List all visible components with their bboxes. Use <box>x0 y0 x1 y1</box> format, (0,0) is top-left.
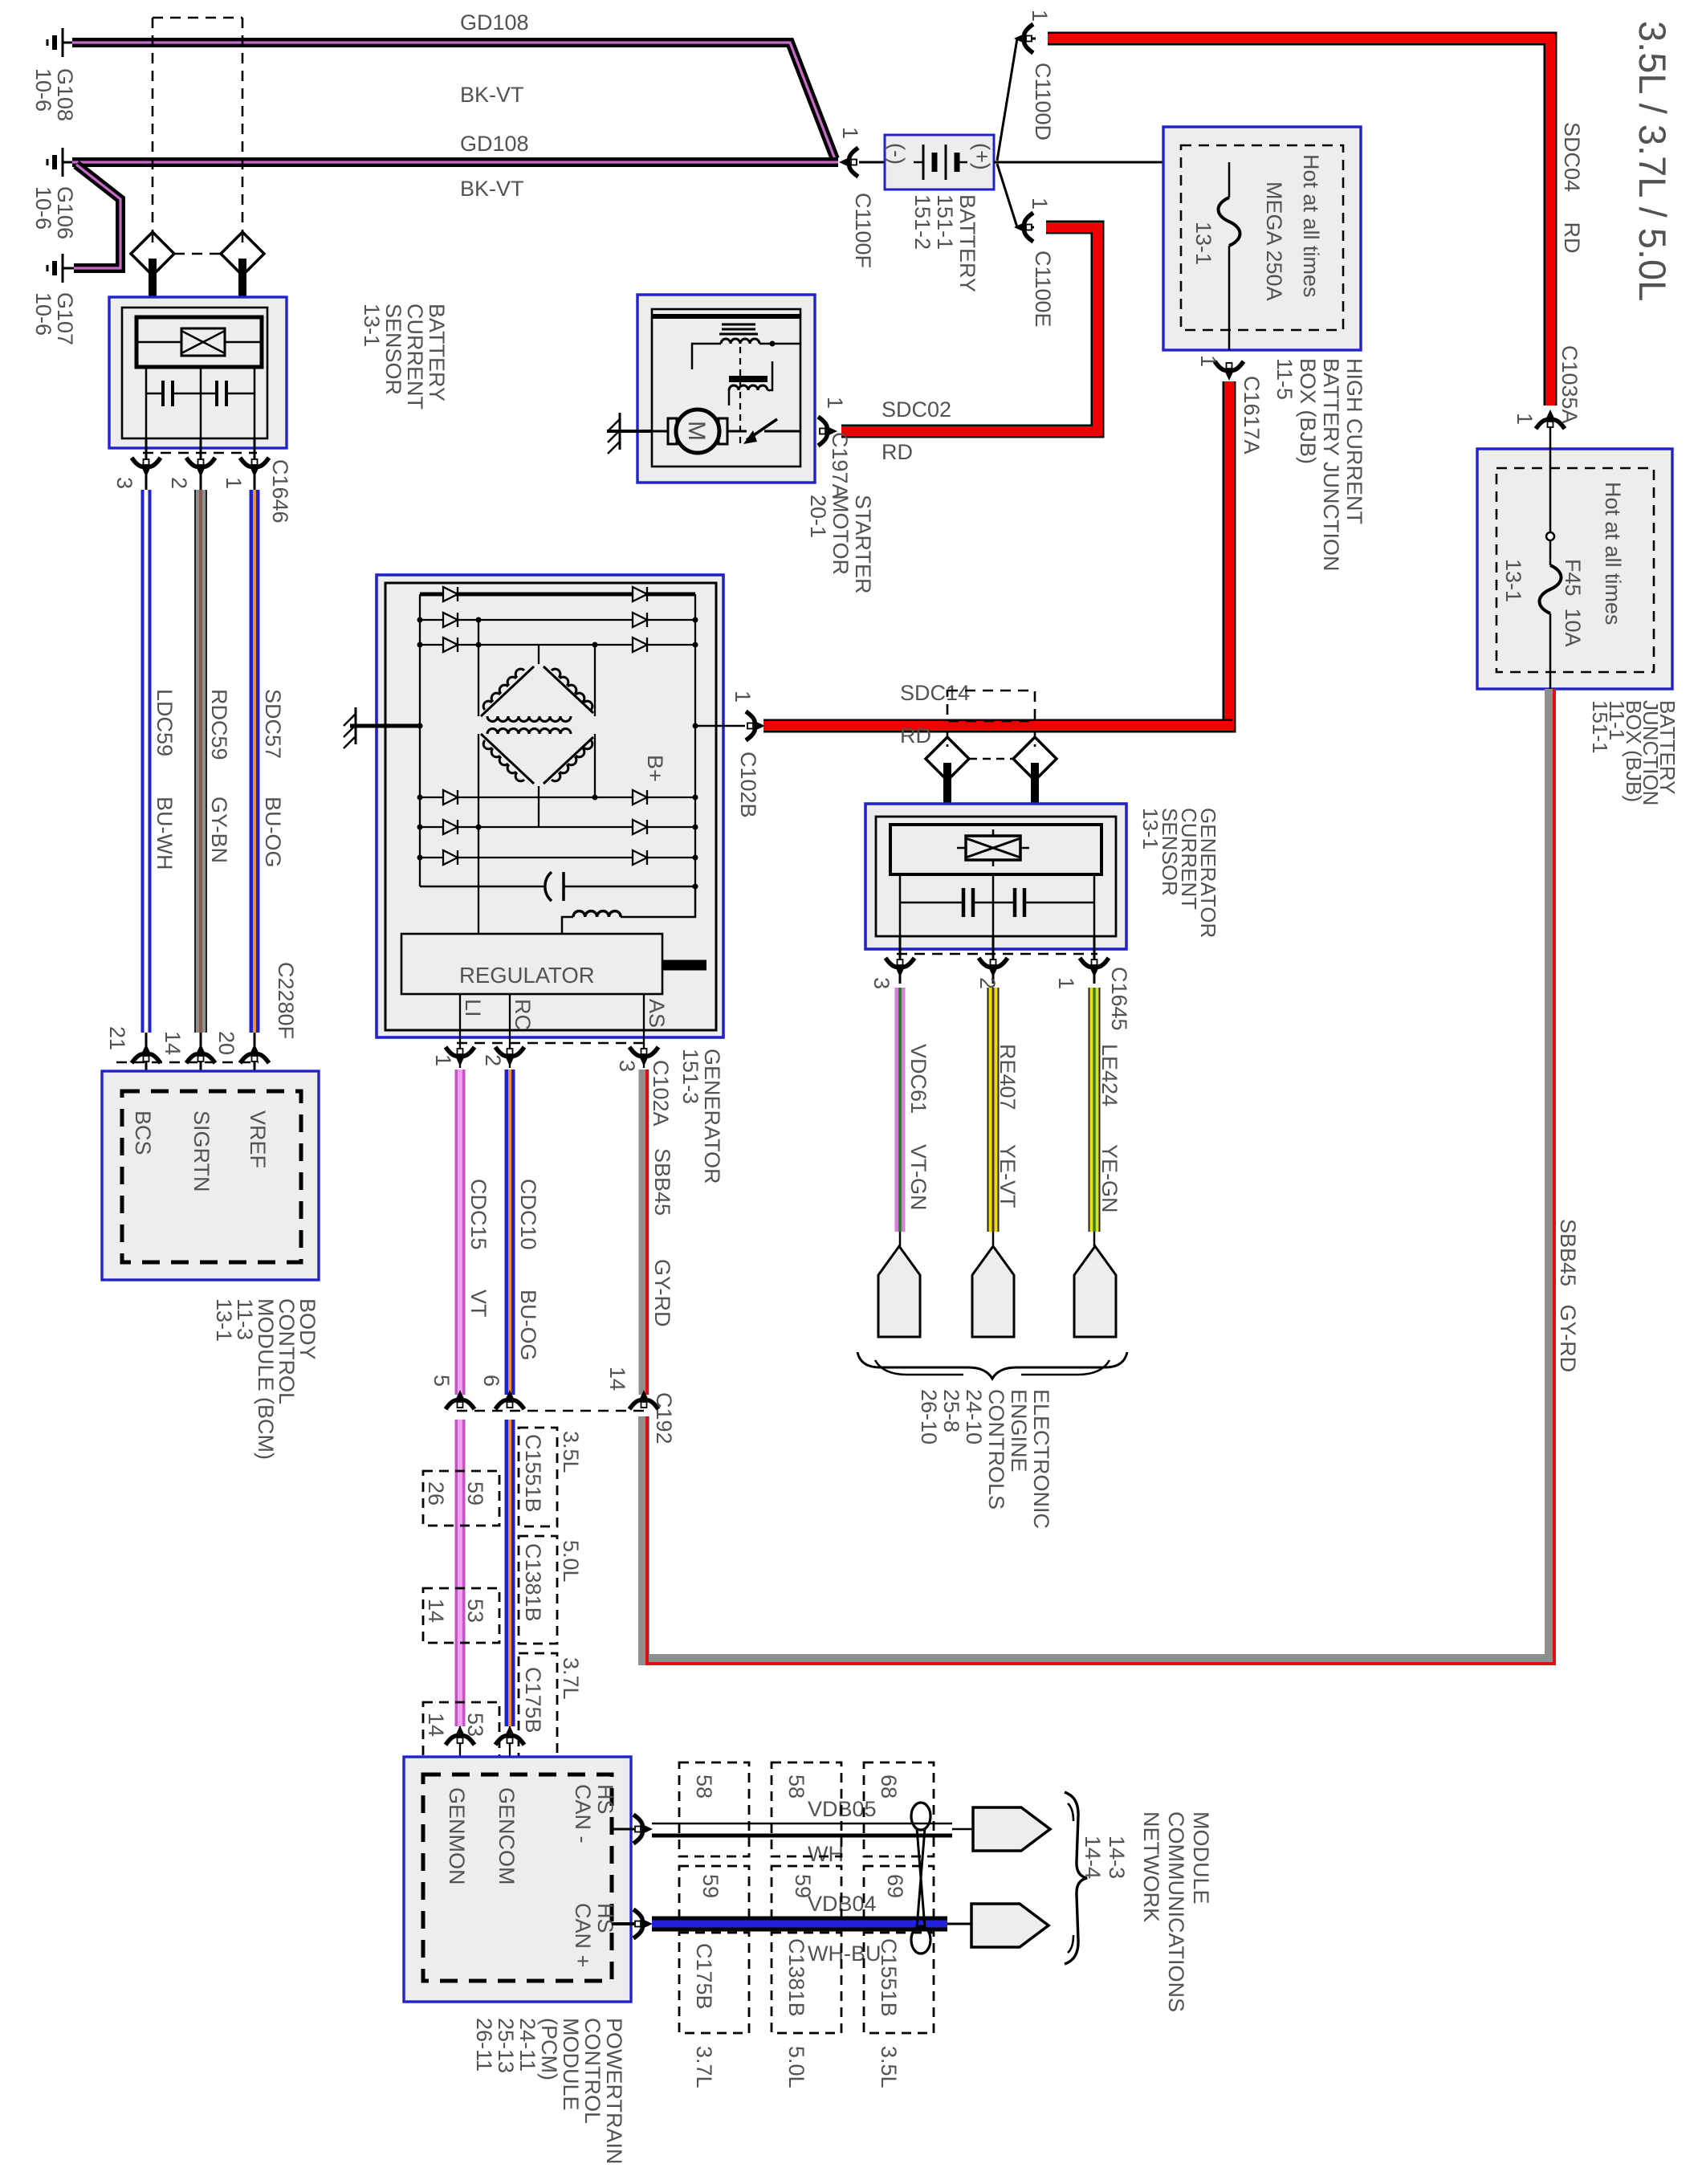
battery plates <box>914 161 923 164</box>
HS CAN + pin lead <box>612 1922 634 1925</box>
fuse MEGA 250A <box>1228 162 1231 198</box>
connector C197A arrow <box>818 417 837 446</box>
svg-text:58: 58 <box>692 1774 716 1799</box>
starter switch <box>727 430 747 433</box>
svg-text:YE-VT: YE-VT <box>996 1144 1020 1208</box>
HS CAN - pin lead <box>612 1828 634 1831</box>
svg-text:C1551B: C1551B <box>877 1938 901 2017</box>
svg-text:B+: B+ <box>643 755 667 782</box>
battery positive feed line to BJB <box>994 161 1229 164</box>
svg-text:20: 20 <box>214 1031 238 1055</box>
svg-text:SDC02: SDC02 <box>882 397 951 422</box>
svg-text:1: 1 <box>823 397 847 409</box>
connector C2280F dashed line <box>116 1061 259 1064</box>
generator box <box>377 575 723 1037</box>
splice diamond S4 <box>1013 737 1057 780</box>
svg-text:(+): (+) <box>970 143 994 170</box>
high current battery junction box (BJB) <box>1163 127 1361 350</box>
splice diamond S2 <box>221 232 264 275</box>
dashed link between S3 and S4 <box>969 758 1013 760</box>
wire RE407 YE-VT <box>987 988 1000 1232</box>
generator internal rails <box>420 594 695 934</box>
connector C1646 pin 2 arrow <box>186 458 215 477</box>
svg-text:C102A: C102A <box>649 1060 673 1127</box>
svg-text:RC: RC <box>511 999 535 1030</box>
connector C1381B pin box (14/53) <box>423 1588 499 1643</box>
connector C2280F pin 20 arrow <box>240 1044 269 1063</box>
wire SDC57 BU-OG <box>250 490 260 1033</box>
generator current sensor element <box>890 825 1101 874</box>
svg-text:1: 1 <box>1028 198 1052 210</box>
PCM pin arrow (GENMON) <box>446 1726 474 1745</box>
wire SDC14 RD (generator B+ to BJB) <box>763 719 1232 733</box>
PCM pin arrow (HS CAN -) <box>633 1815 653 1844</box>
connector C1035A arrow <box>1536 409 1565 429</box>
svg-text:14-314-4: 14-314-4 <box>1081 1836 1129 1879</box>
name box C175B (CAN) <box>679 1933 749 2033</box>
connector C102A pin 1 arrow <box>446 1047 474 1066</box>
svg-text:GY-RD: GY-RD <box>650 1259 674 1327</box>
svg-text:SDC14: SDC14 <box>900 681 970 705</box>
name box C1551B (CAN) <box>864 1933 934 2033</box>
svg-text:SDC04 RD: SDC04 RD <box>1560 122 1584 254</box>
svg-text:YE-GN: YE-GN <box>1097 1144 1122 1213</box>
connector C1617A arrow <box>1215 361 1244 381</box>
svg-text:CDC15: CDC15 <box>466 1179 491 1250</box>
splice diamond S3 <box>926 737 969 780</box>
capacitor C-c <box>900 902 963 904</box>
fuse F45 lead <box>1549 428 1552 565</box>
connector C175B pin box (14/53) <box>423 1702 499 1757</box>
connector C1646 pin 3 arrow <box>132 458 161 477</box>
off-page connector (VDC61) <box>899 1232 902 1246</box>
junction dots on rails <box>417 617 698 890</box>
svg-text:LE424: LE424 <box>1097 1044 1122 1106</box>
svg-text:BU-OG: BU-OG <box>516 1290 540 1361</box>
wire CDC15 VT (upper) <box>455 1070 466 1395</box>
fuse F45 <box>1540 565 1562 613</box>
battery <box>885 135 994 189</box>
wire VDC61 VT-GN <box>895 988 906 1232</box>
svg-text:5.0L: 5.0L <box>559 1540 583 1583</box>
dashed shield lines over ground wires <box>153 18 242 254</box>
pin box 59 (C175B) <box>679 1866 749 1919</box>
battery current sensor element <box>136 317 262 367</box>
svg-text:58: 58 <box>784 1774 808 1799</box>
svg-text:C1381B: C1381B <box>784 1938 808 2017</box>
svg-text:VDC61: VDC61 <box>906 1044 930 1114</box>
starter motor M <box>676 409 719 453</box>
svg-text:13-1: 13-1 <box>1191 222 1215 265</box>
wire leads into BCM <box>145 1033 148 1091</box>
off-page connector (VDB04) <box>971 1904 1048 1947</box>
svg-text:69: 69 <box>883 1874 907 1898</box>
capacitor C-a <box>146 393 163 395</box>
svg-text:C175B: C175B <box>692 1943 716 2010</box>
svg-text:3: 3 <box>112 477 136 489</box>
svg-text:1: 1 <box>1196 355 1220 367</box>
capacitor C-b <box>173 393 217 395</box>
capacitor C-d <box>973 902 1015 904</box>
svg-text:WH: WH <box>808 1842 844 1866</box>
svg-text:C1381B: C1381B <box>521 1543 545 1622</box>
regulator pin leads <box>459 994 461 1068</box>
wire CDC15 VT (lower) <box>455 1420 466 1726</box>
svg-text:1: 1 <box>731 691 755 703</box>
svg-text:WH-BU: WH-BU <box>808 1942 881 1966</box>
svg-text:Hot at all times: Hot at all times <box>1299 154 1323 298</box>
diode row 3 <box>420 644 695 646</box>
starter motor box <box>637 295 815 483</box>
svg-text:VT-GN: VT-GN <box>906 1144 930 1211</box>
name box C1381B (CAN) <box>772 1933 841 2033</box>
off-page connector (VDB05) <box>973 1807 1050 1851</box>
generator current sensor box <box>865 804 1126 949</box>
wire LE424 YE-GN <box>1089 988 1101 1232</box>
diode row 5 <box>420 826 695 828</box>
connector C2280F pin 21 arrow <box>132 1044 161 1063</box>
connector C175B name box <box>519 1653 557 1758</box>
powertrain control module (PCM) box <box>404 1757 631 2002</box>
battery current sensor box <box>109 297 287 448</box>
pin leads to C1646 <box>145 438 148 490</box>
svg-text:3.7L: 3.7L <box>559 1657 583 1700</box>
svg-text:GENMON: GENMON <box>445 1787 469 1885</box>
svg-text:1: 1 <box>1028 10 1052 22</box>
left diodes <box>443 587 458 865</box>
svg-text:2: 2 <box>975 977 1000 989</box>
brace (electronic engine controls) <box>857 1352 1127 1379</box>
connector C1645 pin 2 arrow <box>979 958 1008 977</box>
connector C1551B pin box (26/59) <box>423 1471 499 1526</box>
svg-text:3.5L: 3.5L <box>559 1431 583 1473</box>
svg-text:BU-OG: BU-OG <box>261 797 285 868</box>
svg-text:1: 1 <box>431 1054 455 1066</box>
svg-text:1: 1 <box>838 127 862 139</box>
wire VDB05 WH <box>652 1823 952 1825</box>
svg-text:2: 2 <box>481 1054 505 1066</box>
svg-text:RD: RD <box>900 723 931 748</box>
svg-text:GENCOM: GENCOM <box>495 1787 519 1885</box>
svg-text:3.7L: 3.7L <box>692 2046 716 2088</box>
svg-text:Hot at all times: Hot at all times <box>1601 482 1625 625</box>
svg-text:BK-VT: BK-VT <box>460 177 524 201</box>
svg-text:C1551B: C1551B <box>521 1434 545 1513</box>
svg-text:AS: AS <box>645 999 669 1028</box>
connector C1100D arrow <box>1014 24 1033 53</box>
junction ring <box>1546 532 1554 540</box>
connector C102A pin 3 arrow <box>629 1047 658 1066</box>
svg-text:14: 14 <box>424 1599 448 1623</box>
regulator <box>401 934 662 994</box>
PCM pin arrow (HS CAN +) <box>633 1909 653 1938</box>
svg-text:14: 14 <box>161 1031 185 1055</box>
diode row 2 <box>420 619 695 621</box>
chassis ground (generator) <box>350 724 420 728</box>
svg-text:13-1: 13-1 <box>1501 559 1525 602</box>
wire CDC10 BU-OG (lower) <box>505 1420 515 1726</box>
connector C192 pin 14 arrow <box>629 1390 658 1409</box>
svg-text:C1617A: C1617A <box>1240 376 1264 454</box>
connector C1645 dashed line <box>897 953 1097 955</box>
diode row 6 <box>420 857 695 858</box>
connector C1645 pin 3 arrow <box>886 958 914 977</box>
svg-text:59: 59 <box>698 1874 723 1898</box>
solenoid coil 2 <box>729 376 768 382</box>
svg-text:GD108: GD108 <box>460 132 529 156</box>
chassis ground (starter) <box>607 430 652 433</box>
dashed shield box on SDC14 <box>947 691 1035 721</box>
svg-text:RD: RD <box>882 440 913 464</box>
ground G107 <box>47 254 74 283</box>
sensor pin leads <box>145 367 148 438</box>
off-page connector (RE407) <box>992 1232 995 1246</box>
wire GD108 BK-VT lower (from G106 to battery) <box>72 157 838 167</box>
svg-text:C1100D: C1100D <box>1031 63 1055 141</box>
svg-text:SBB45 GY-RD: SBB45 GY-RD <box>1556 1219 1580 1372</box>
svg-text:C192: C192 <box>652 1392 676 1444</box>
svg-text:RDC59: RDC59 <box>207 689 231 760</box>
wire GD108 BK-VT upper (from G108) <box>72 43 835 159</box>
wire LDC59 BU-WH <box>141 490 152 1033</box>
ground G108 <box>47 28 74 57</box>
svg-text:68: 68 <box>877 1774 901 1799</box>
generator field inductor <box>573 911 621 917</box>
connector C2280F pin 14 arrow <box>186 1044 215 1063</box>
connector C1100F arrow <box>839 148 858 177</box>
svg-text:F45 10A: F45 10A <box>1561 559 1585 647</box>
connector C1381B name box <box>519 1536 557 1644</box>
svg-text:C1035A: C1035A <box>1557 345 1582 424</box>
svg-text:BU-WH: BU-WH <box>153 797 177 870</box>
svg-text:GY-BN: GY-BN <box>207 797 231 863</box>
splice diamond S1 <box>131 232 174 275</box>
svg-text:GD108: GD108 <box>460 10 529 35</box>
branch to C1100D <box>997 39 1036 161</box>
svg-text:LDC59: LDC59 <box>153 689 177 756</box>
svg-text:MEGA 250A: MEGA 250A <box>1262 181 1286 301</box>
pin box 58 (C1381B) <box>772 1762 841 1856</box>
wire to battery negative <box>859 161 885 164</box>
svg-text:C197A: C197A <box>828 432 852 499</box>
connector C1646 dashed line <box>143 452 257 454</box>
connector C192 pin 5 arrow <box>446 1390 474 1409</box>
wire SBB45 GY-RD (F45 down and across) <box>644 689 1550 1660</box>
svg-text:6: 6 <box>479 1375 503 1387</box>
svg-text:5.0L: 5.0L <box>784 2046 808 2088</box>
generator top bus <box>420 593 695 597</box>
svg-text:SDC57: SDC57 <box>261 689 285 759</box>
wire SDC02 RD (C1100E to starter) <box>841 227 1097 431</box>
svg-text:3.5L: 3.5L <box>877 2046 901 2088</box>
stator delta winding upper <box>481 666 593 722</box>
svg-text:53: 53 <box>463 1599 487 1623</box>
diode row 4 <box>420 797 695 798</box>
svg-text:BK-VT: BK-VT <box>460 83 524 107</box>
pin box 69 (C1551B) <box>864 1866 934 1919</box>
connector C1551B name box <box>519 1428 557 1526</box>
right diodes <box>633 587 647 865</box>
svg-text:C1100F: C1100F <box>851 193 875 268</box>
wire branch to G107 <box>74 165 120 268</box>
svg-text:3.5L / 3.7L / 5.0L: 3.5L / 3.7L / 5.0L <box>1631 21 1674 301</box>
svg-text:C1646: C1646 <box>268 459 292 524</box>
svg-text:BCS: BCS <box>131 1110 155 1155</box>
connector C1100E arrow <box>1014 213 1033 242</box>
svg-text:26: 26 <box>424 1481 448 1506</box>
svg-text:CDC10: CDC10 <box>516 1179 540 1250</box>
svg-text:M: M <box>683 421 710 441</box>
off-page connector (LE424) <box>1093 1232 1096 1246</box>
svg-text:5: 5 <box>430 1375 454 1387</box>
generator capacitor <box>420 886 546 888</box>
connector C102A pin 2 arrow <box>495 1047 524 1066</box>
connector C102B arrow <box>746 711 765 740</box>
PCM pin arrows <box>459 1726 461 1774</box>
svg-text:1: 1 <box>1513 413 1537 425</box>
svg-text:SBB45: SBB45 <box>650 1148 674 1216</box>
connector C1646 pin 1 arrow <box>240 458 269 477</box>
battery junction box (F45) <box>1477 449 1672 689</box>
svg-text:REGULATOR: REGULATOR <box>459 963 595 988</box>
branch to C1100E <box>997 164 1034 227</box>
svg-text:14: 14 <box>605 1367 629 1391</box>
svg-text:3: 3 <box>869 977 894 989</box>
svg-text:C2280F: C2280F <box>274 962 298 1039</box>
stator delta winding lower <box>481 729 593 784</box>
svg-text:1: 1 <box>222 477 246 489</box>
solenoid plunger dashed link <box>739 347 741 443</box>
svg-text:C1645: C1645 <box>1107 967 1131 1031</box>
svg-text:C175B: C175B <box>521 1667 545 1734</box>
svg-text:SIGRTN: SIGRTN <box>189 1110 214 1192</box>
svg-text:RE407: RE407 <box>996 1044 1020 1110</box>
connector C1645 pin 1 arrow <box>1080 958 1109 977</box>
B+ output line <box>695 725 745 727</box>
pin leads to C1645 <box>899 936 902 984</box>
connector C192 pin 6 arrow <box>495 1390 524 1409</box>
svg-text:3: 3 <box>615 1060 639 1072</box>
svg-text:C102B: C102B <box>736 752 760 818</box>
svg-text:14: 14 <box>424 1713 448 1737</box>
svg-text:59: 59 <box>791 1874 815 1898</box>
svg-text:21: 21 <box>105 1026 129 1050</box>
sensor pin leads <box>899 874 902 936</box>
pin box 59 (C1381B) <box>772 1866 841 1919</box>
svg-text:VT: VT <box>466 1290 491 1318</box>
svg-text:LI: LI <box>461 999 485 1017</box>
wire RD (C1617A to SDC14 junction) <box>1108 381 1229 726</box>
wire CDC10 BU-OG (upper) <box>505 1070 515 1395</box>
connector C192 dashed line <box>457 1410 647 1412</box>
ground G106 <box>47 148 74 177</box>
wire VDB04 WH-BU <box>652 1917 947 1932</box>
wire SBB45 GY-RD (generator AS down) <box>639 1070 649 1395</box>
pin box 58 (C175B) <box>679 1762 749 1856</box>
pin box 68 (C1551B) <box>864 1762 934 1856</box>
svg-text:(-): (-) <box>885 143 909 165</box>
svg-text:59: 59 <box>463 1481 487 1506</box>
wire SDC04 RD (battery to BJB F45) <box>1048 39 1550 405</box>
body control module (BCM) box <box>102 1071 319 1280</box>
svg-text:1: 1 <box>1054 977 1078 989</box>
twisted pair symbol <box>911 1803 930 1830</box>
svg-text:53: 53 <box>463 1713 487 1737</box>
svg-text:C1100E: C1100E <box>1031 251 1055 328</box>
svg-text:2: 2 <box>167 477 191 489</box>
solenoid core <box>722 324 755 326</box>
wire RDC59 GY-BN <box>194 490 207 1033</box>
brace (module communications network) <box>1065 1792 1087 1964</box>
connector C102A dashed line <box>457 1042 647 1045</box>
PCM pin arrow (GENCOM) <box>495 1726 524 1745</box>
solenoid coil 1 <box>721 339 759 344</box>
svg-text:VREF: VREF <box>246 1110 270 1168</box>
